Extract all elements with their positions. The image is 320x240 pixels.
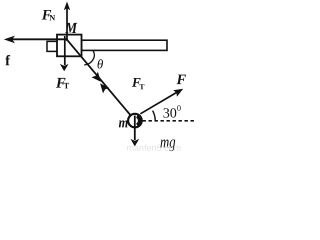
label F_T below block [56,78,66,88]
label M [65,23,77,33]
ball m [128,114,142,128]
label F [176,75,185,85]
label F_T near rope (ball side) [132,78,141,87]
force mg arrow down [131,116,140,147]
watermark [127,144,180,151]
dashed horizontal reference line [143,120,197,122]
force F arrow up-right [140,89,183,114]
beam left stub [47,41,58,51]
label 30 degrees [163,108,176,117]
angle theta arc [84,51,94,65]
label m [119,120,128,127]
label F_N [42,10,51,20]
force F_N arrow up [64,2,70,42]
label mg [160,139,175,151]
rope tension arrowhead on block side (points down-right) [92,72,101,82]
force F_T arrow down (on block) [60,36,69,71]
label f [5,55,10,65]
force f arrow left [4,36,66,44]
wire rope from block to ball [66,38,135,120]
label theta [98,59,103,68]
block M body [57,35,82,57]
rope tension arrowhead on ball side (points up-left) [100,83,109,93]
beam right section [82,40,168,50]
angle 30 deg arc [153,111,156,121]
